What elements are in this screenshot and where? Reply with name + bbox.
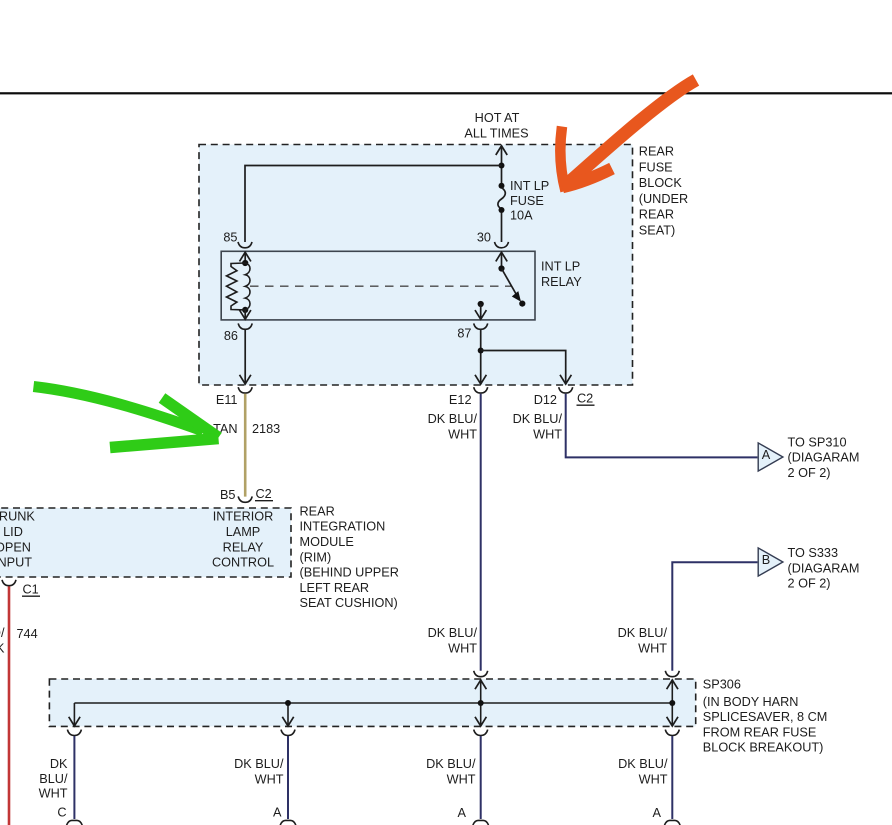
svg-text:DK BLU/: DK BLU/ [428,626,478,640]
svg-text:REAR: REAR [639,208,674,222]
svg-text:REAR: REAR [639,145,674,159]
svg-text:FUSE: FUSE [639,160,673,174]
SP306 internal bus [74,680,672,727]
wire branch to D12 [481,351,566,384]
svg-text:C: C [57,806,66,820]
svg-text:(BEHIND UPPER: (BEHIND UPPER [300,566,399,580]
svg-text:RED/: RED/ [0,626,5,640]
wires below SP306 DK BLU/WHT [74,736,672,819]
svg-text:(DIAGARAM: (DIAGARAM [788,451,860,465]
terminal E12 [474,387,488,393]
svg-text:INT LP: INT LP [510,179,549,193]
relay coil pin 85 entry arrow [240,252,251,261]
svg-text:DK BLU/: DK BLU/ [234,757,284,771]
svg-text:WHT: WHT [533,427,562,441]
svg-text:BLU/: BLU/ [39,772,68,786]
svg-text:WHT: WHT [255,772,284,786]
svg-text:ALL TIMES: ALL TIMES [464,126,528,140]
svg-text:(UNDER: (UNDER [639,192,688,206]
svg-text:CONTROL: CONTROL [212,556,274,570]
junction node [499,163,505,169]
wire: battery feed into fuse block [501,147,503,187]
svg-text:87: 87 [457,327,471,341]
wire TAN 2183 [244,394,247,497]
svg-text:(IN BODY HARN: (IN BODY HARN [703,695,799,709]
relay coil pin 86 exit arrow [244,310,246,320]
wire pin 86 to E11 [244,330,246,384]
svg-text:INPUT: INPUT [0,556,32,570]
cups above SP306 [474,671,488,677]
wire RED/BLK 744 trunk lid input [8,586,11,825]
svg-text:B: B [762,553,770,567]
svg-text:D12: D12 [534,393,557,407]
svg-text:FROM REAR FUSE: FROM REAR FUSE [703,725,817,739]
svg-text:REAR: REAR [300,504,335,518]
relay switch pin 87 contact [478,301,484,307]
resistor (parallel with coil) [227,263,246,310]
svg-text:HOT AT: HOT AT [475,111,520,125]
svg-text:744: 744 [17,627,38,641]
RIM module dashed box [0,508,291,577]
svg-text:LID: LID [3,525,23,539]
wire D12 DK BLU/WHT to SP310 [566,394,758,458]
svg-text:TO S333: TO S333 [788,546,839,560]
svg-text:WHT: WHT [639,772,668,786]
relay internal dashed link [250,285,511,287]
cups below SP306 [67,730,81,736]
svg-text:DK: DK [50,757,68,771]
svg-text:C2: C2 [256,487,272,501]
off-page connector B to S333 [758,548,783,576]
bottom connector caps [67,820,83,825]
wire: branch to relay coil pin 85 [245,166,502,243]
svg-text:C2: C2 [577,392,593,406]
svg-text:INT LP: INT LP [541,260,580,274]
relay switch pin 30 entry arrow [496,252,507,261]
svg-text:B5: B5 [220,488,236,502]
rear fuse block dashed box [199,145,633,386]
svg-text:E11: E11 [216,393,238,407]
svg-text:INTEGRATION: INTEGRATION [300,520,386,534]
relay coil (inductor with parallel resistor) [242,260,248,266]
svg-text:2 OF 2): 2 OF 2) [788,577,831,591]
svg-text:WHT: WHT [39,787,68,801]
svg-text:DK BLU/: DK BLU/ [426,757,476,771]
svg-text:DK BLU/: DK BLU/ [428,412,478,426]
wire from SP306 up to S333 connector [672,562,757,671]
svg-text:TO SP310: TO SP310 [788,435,847,449]
connector cup pin 86 [238,323,252,329]
svg-text:85: 85 [223,231,237,245]
terminal D12 [559,387,573,393]
svg-text:A: A [273,806,282,820]
svg-text:DK BLU/: DK BLU/ [618,626,668,640]
wire pin 87 to E12 [480,330,482,384]
svg-text:BLOCK: BLOCK [639,176,683,190]
svg-text:A: A [653,806,662,820]
orange annotation arrow [560,80,696,191]
splice SP306 dashed box [49,679,695,726]
svg-text:RELAY: RELAY [223,540,264,554]
off-page connector A to SP310 [758,443,783,471]
svg-text:SPLICESAVER, 8 CM: SPLICESAVER, 8 CM [703,710,828,724]
svg-text:TRUNK: TRUNK [0,510,35,524]
terminal C1 at RIM bottom [2,580,16,586]
svg-text:WHT: WHT [448,427,477,441]
svg-text:10A: 10A [510,209,533,223]
connector cup pin 85 [238,242,252,248]
terminal E11 [238,387,252,393]
svg-text:RELAY: RELAY [541,275,582,289]
connector cup pin 87 [474,323,488,329]
svg-text:C1: C1 [23,583,39,597]
relay switch blade [498,265,504,271]
svg-text:2183: 2183 [252,422,280,436]
connector cup pin 30 [495,242,509,248]
junction nodes on bus [285,700,291,706]
svg-text:30: 30 [477,231,491,245]
junction node below 87 [478,348,484,354]
svg-text:86: 86 [224,329,238,343]
svg-text:BLK: BLK [0,641,5,655]
arrow up at box top [496,146,507,155]
svg-text:FUSE: FUSE [510,194,544,208]
svg-text:OPEN: OPEN [0,540,31,554]
svg-text:(RIM): (RIM) [300,550,332,564]
svg-text:DK BLU/: DK BLU/ [513,412,563,426]
svg-text:BLOCK BREAKOUT): BLOCK BREAKOUT) [703,741,824,755]
svg-text:A: A [458,806,467,820]
svg-text:SP306: SP306 [703,677,741,691]
svg-text:LEFT REAR: LEFT REAR [300,581,370,595]
green annotation arrow [34,387,219,448]
wire E12 DK BLU/WHT down to SP306 [480,394,482,671]
svg-text:LAMP: LAMP [226,525,261,539]
svg-text:MODULE: MODULE [300,535,354,549]
svg-text:A: A [762,448,771,462]
svg-text:INTERIOR: INTERIOR [213,510,274,524]
relay box INT LP RELAY [221,251,535,320]
svg-text:2 OF 2): 2 OF 2) [788,466,831,480]
svg-text:(DIAGARAM: (DIAGARAM [788,561,860,575]
svg-text:WHT: WHT [447,772,476,786]
svg-text:E12: E12 [449,393,472,407]
fuse INT LP FUSE 10A [499,183,505,189]
svg-text:DK BLU/: DK BLU/ [618,757,668,771]
svg-text:WHT: WHT [638,641,667,655]
svg-text:SEAT CUSHION): SEAT CUSHION) [300,596,398,610]
svg-text:WHT: WHT [448,641,477,655]
svg-text:SEAT): SEAT) [639,223,675,237]
